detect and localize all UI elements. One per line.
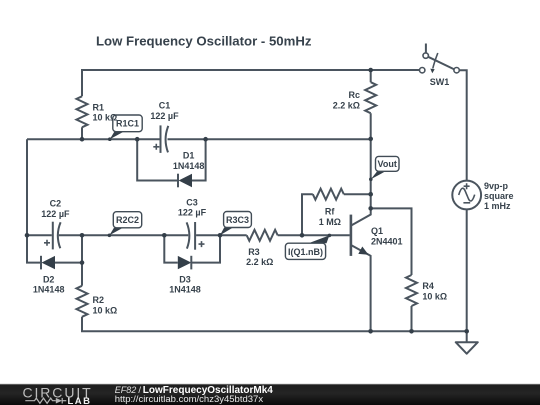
- svg-text:2.2 kΩ: 2.2 kΩ: [246, 257, 273, 267]
- svg-text:Rf: Rf: [325, 207, 335, 217]
- svg-text:C2: C2: [50, 199, 62, 209]
- svg-text:R2C2: R2C2: [116, 215, 139, 225]
- svg-text:D3: D3: [179, 274, 191, 284]
- svg-text:2N4401: 2N4401: [371, 237, 403, 247]
- svg-text:10 kΩ: 10 kΩ: [93, 112, 118, 122]
- svg-text:square: square: [484, 191, 514, 201]
- svg-text:Low Frequency Oscillator - 50m: Low Frequency Oscillator - 50mHz: [96, 34, 312, 49]
- svg-text:I(Q1.nB): I(Q1.nB): [288, 247, 323, 257]
- svg-text:122 µF: 122 µF: [178, 208, 207, 218]
- svg-text:9vp-p: 9vp-p: [484, 181, 509, 191]
- svg-text:122 µF: 122 µF: [150, 111, 179, 121]
- svg-text:D2: D2: [43, 274, 55, 284]
- svg-text:http://circuitlab.com/chz3y45b: http://circuitlab.com/chz3y45btd37x: [115, 394, 264, 405]
- svg-text:LAB: LAB: [68, 396, 92, 405]
- svg-text:R3C3: R3C3: [226, 215, 249, 225]
- svg-text:1N4148: 1N4148: [169, 284, 201, 294]
- svg-text:Vout: Vout: [378, 159, 397, 169]
- svg-text:R4: R4: [422, 281, 434, 291]
- svg-text:C3: C3: [186, 197, 198, 207]
- svg-text:Q1: Q1: [371, 226, 383, 236]
- svg-text:1 MΩ: 1 MΩ: [319, 217, 341, 227]
- svg-text:1N4148: 1N4148: [33, 284, 65, 294]
- svg-text:10 kΩ: 10 kΩ: [93, 306, 118, 316]
- svg-text:R2: R2: [93, 295, 105, 305]
- svg-text:2.2 kΩ: 2.2 kΩ: [333, 100, 360, 110]
- svg-text:C1: C1: [159, 101, 171, 111]
- svg-text:10 kΩ: 10 kΩ: [422, 291, 447, 301]
- svg-text:122 µF: 122 µF: [41, 209, 70, 219]
- svg-text:R1C1: R1C1: [116, 119, 139, 129]
- svg-text:Rc: Rc: [348, 90, 360, 100]
- svg-text:R1: R1: [93, 103, 105, 113]
- svg-text:1 mHz: 1 mHz: [484, 201, 511, 211]
- svg-text:D1: D1: [183, 151, 195, 161]
- svg-text:1N4148: 1N4148: [173, 161, 205, 171]
- svg-text:R3: R3: [248, 247, 260, 257]
- svg-text:SW1: SW1: [430, 77, 450, 87]
